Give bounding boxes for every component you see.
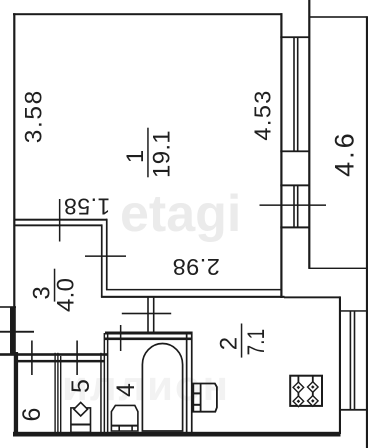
svg-text:1.58: 1.58 [64,193,111,219]
kitchen window cap top [340,310,367,312]
kitchen door tick [122,313,171,315]
tick left entry top [0,306,16,308]
svg-text:2: 2 [215,337,242,350]
svg-text:4.0: 4.0 [53,278,80,312]
kitchen door jamb b [153,296,155,333]
kitchen left wall b [191,332,193,433]
room5 door tick [76,341,78,376]
bottom outer wall [13,432,341,437]
kitchen sink [193,384,217,412]
wall left lower bump [10,307,16,356]
window glass 2b [297,185,299,228]
window cap bottom [280,226,309,228]
wall rooms 6-5 c [60,356,61,433]
kitchen top wall right segment [284,296,340,298]
svg-text:3: 3 [29,286,56,299]
toilet room5 [71,402,91,432]
room4 top wall line1 [105,332,192,335]
window cap mid1 [280,150,309,152]
washbasin room4 [111,405,137,431]
svg-text:7.1: 7.1 [243,329,270,356]
kitchen left wall a [186,332,188,433]
balcony left wall [308,0,310,269]
svg-text:4.53: 4.53 [250,89,276,140]
kitchen window cap bottom [339,409,368,411]
wall rooms 6-5 b [57,353,58,433]
room6 door tick [31,341,33,376]
room5 right wall [100,353,102,433]
fraction bar room3 [54,269,56,302]
fraction bar room1 [147,128,149,178]
balcony divider tick [260,204,327,206]
balcony top wall [309,16,367,18]
svg-text:2.98: 2.98 [172,254,220,280]
wall room1 bottom line1 [14,219,107,221]
window glass 1b [297,37,299,151]
wall hall right outer [101,224,103,296]
wall right room1 [280,13,282,298]
stove [290,376,322,407]
window glass 2a [293,185,295,228]
kitchen right wall [339,296,341,434]
kitchen top wall outer [101,296,285,298]
door tick room1-hall [85,255,126,257]
wall hall right inner [106,219,108,290]
bathtub [142,344,182,432]
wall left room1 [13,13,15,307]
balcony right outer wall [366,16,368,448]
svg-text:5: 5 [67,379,95,393]
svg-text:4: 4 [112,383,140,397]
svg-text:etagi: etagi [120,185,241,243]
svg-text:4.6: 4.6 [330,130,360,177]
kitchen window glass b [354,311,356,410]
fraction bar room2 [241,324,243,358]
window cap top [280,36,309,38]
rooms 5-6 top wall outer [0,353,108,356]
room4 door tick [120,325,122,351]
wall top room1 [13,13,282,15]
svg-text:19.1: 19.1 [149,130,176,178]
kitchen window glass a [350,311,352,410]
kitchen door jamb a [147,296,149,333]
wall room1 bottom line2 [14,224,102,226]
svg-text:1: 1 [122,150,149,163]
room6 left wall [14,352,18,436]
door tick entrance [0,331,34,333]
window glass 1a [293,37,295,151]
window cap mid2 [280,184,309,186]
balcony bottom wall [309,268,367,269]
dim tick 1.58 [59,199,61,242]
kitchen top wall inner [106,289,282,291]
rooms 5-6 top wall inner [18,360,104,363]
svg-text:3.58: 3.58 [21,89,48,143]
room4 left wall a [104,333,106,433]
room4 left wall b [107,333,109,433]
svg-text:6: 6 [18,408,46,422]
room4 top wall line2 [105,338,192,341]
wall rooms 6-5 a [54,353,55,433]
